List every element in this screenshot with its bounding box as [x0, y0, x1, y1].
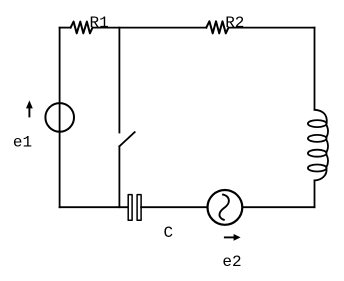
resistor R2 [206, 21, 228, 33]
resistor R1 [71, 22, 93, 34]
arrow for e2 [224, 234, 241, 241]
switch blade [119, 132, 134, 146]
svg-text:R2: R2 [225, 14, 244, 32]
wire bottom-left segment [60, 206, 129, 208]
wire top-left segment [60, 27, 71, 29]
wire right side lower [314, 180, 316, 207]
svg-text:e1: e1 [13, 134, 32, 152]
svg-text:R1: R1 [90, 14, 109, 32]
arrow for e1 [26, 100, 33, 117]
wire right side upper [314, 28, 316, 110]
wire bottom-middle segment [141, 206, 206, 208]
sine squiggle of e2 [219, 195, 228, 220]
source e2 [208, 190, 243, 225]
source e1 [45, 103, 74, 132]
wire top-middle segment [93, 27, 207, 29]
svg-text:e2: e2 [222, 253, 241, 271]
wire top-right segment [229, 27, 315, 29]
capacitor C [128, 195, 141, 221]
wire bottom-right segment [243, 206, 314, 208]
wire left side [59, 28, 61, 208]
wire middle branch lower [118, 146, 120, 207]
svg-text:C: C [164, 224, 174, 242]
wire middle branch upper [118, 28, 120, 133]
inductor L [308, 110, 328, 181]
